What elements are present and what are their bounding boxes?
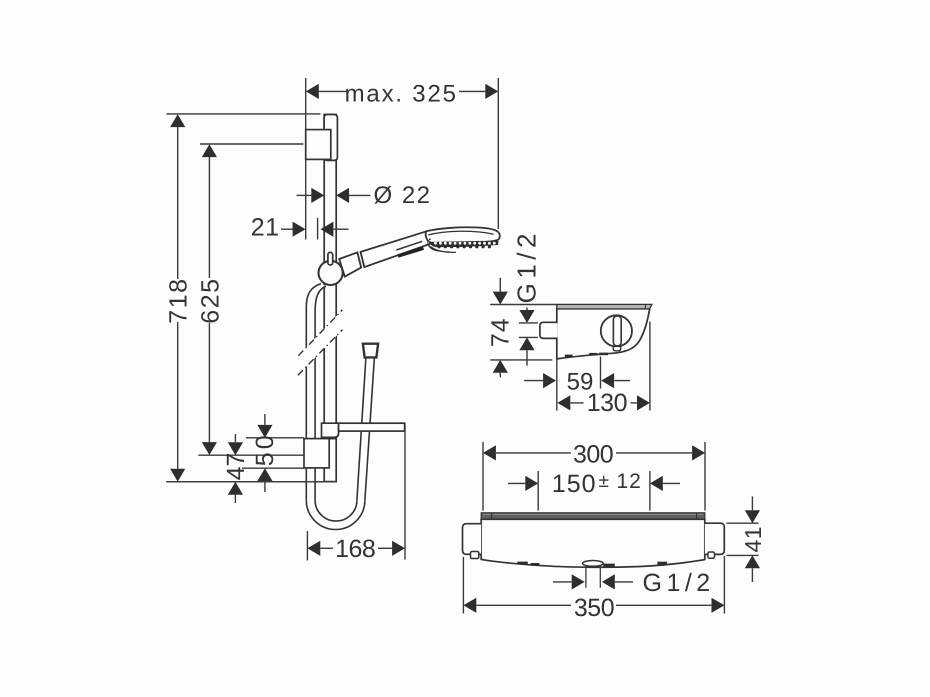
extension lines 300 [482, 442, 484, 511]
shower head face rim [428, 231, 493, 235]
rail top slide clamp [324, 115, 337, 161]
svg-text:41: 41 [740, 526, 766, 553]
extension line right of hand shower (max. 325 right) [497, 78, 499, 229]
side view bottom ticks [565, 355, 573, 358]
wall extension line (max. 325 left / wall plane) [305, 78, 307, 240]
hand shower cone adapter [339, 252, 361, 276]
svg-text:G1/2: G1/2 [643, 569, 715, 597]
lower wall bracket [329, 438, 336, 440]
front view top band [481, 513, 705, 520]
svg-text:G1/2: G1/2 [512, 229, 542, 303]
grip button thin line [396, 241, 422, 250]
grip select button [398, 248, 424, 256]
side view top band [557, 304, 652, 309]
svg-text:50: 50 [251, 432, 279, 466]
svg-text:168: 168 [335, 535, 375, 563]
band ticks [491, 513, 493, 520]
holder knob [328, 252, 333, 265]
side view inlet connector G1/2 [540, 322, 558, 338]
extension line 130 right [649, 322, 651, 411]
spray nozzle outer bumps [437, 245, 440, 248]
knob grip pill [613, 316, 621, 346]
band tick [644, 304, 647, 309]
svg-text:300: 300 [573, 440, 613, 468]
extension line 21 [317, 218, 319, 240]
rail break symbol (white gap) [298, 310, 343, 375]
left inlet connector [463, 524, 482, 555]
extension line 168 left [306, 531, 308, 561]
right connector screw nub [708, 552, 715, 558]
svg-text:Ø 22: Ø 22 [374, 182, 432, 209]
shower head body [426, 227, 500, 244]
hand shower grip [361, 231, 431, 267]
dimension 718 [170, 114, 185, 127]
dimension Ø 22 [297, 194, 312, 196]
extension lines 41 [726, 522, 758, 524]
dark shadow under head left [427, 241, 451, 252]
upper wall bracket [306, 130, 331, 160]
extension lines G1/2 [519, 322, 538, 324]
svg-text:625: 625 [196, 277, 224, 323]
outlet stub extension lines [585, 566, 587, 588]
svg-text:130: 130 [587, 389, 627, 417]
outlet flange ellipse [583, 561, 604, 567]
front view body [481, 519, 705, 567]
belly tick marks [517, 562, 528, 565]
spray disc under-curve [431, 247, 457, 253]
dimension G1/2 (side) [512, 229, 542, 303]
dimension G1/2 (front) [553, 581, 572, 583]
break line lower (dash-dot) [298, 330, 343, 375]
svg-text:718: 718 [165, 277, 193, 323]
extension line rail top (718) [166, 113, 320, 115]
dimension 300 [483, 445, 496, 460]
dimension 625 [202, 144, 217, 157]
extension line 168 right / shelf edge [404, 424, 406, 560]
spray nozzle dots [434, 242, 437, 245]
thermostat side view: body [557, 309, 650, 359]
hose inner-left edge [315, 286, 326, 500]
hose right edge outer [365, 358, 375, 501]
svg-text:150: 150 [552, 470, 597, 498]
hose U-bend inner [315, 500, 357, 521]
shower rail tube [324, 115, 336, 482]
extension line 625 bottom [198, 454, 303, 456]
soap shelf [339, 423, 405, 431]
knob bottom tab [613, 346, 621, 350]
shelf clamp on rail [322, 423, 339, 437]
side view wall extension line [556, 359, 558, 411]
dimension 41 [745, 510, 760, 523]
rail bottom extension line (redrawn over hose) [166, 481, 336, 483]
extension line 59 (outlet axis) [600, 357, 602, 389]
dimension 59 [524, 380, 543, 382]
extension lines 350 [462, 557, 464, 614]
break line upper (dash-dot) [298, 310, 342, 356]
svg-text:21: 21 [251, 214, 280, 242]
svg-text:74: 74 [487, 317, 515, 347]
dimension 47 [228, 442, 243, 455]
svg-text:350: 350 [574, 594, 614, 622]
hose right edge inner [357, 358, 366, 501]
svg-text:12: 12 [617, 470, 642, 493]
extension line bracket top (50) [246, 437, 304, 439]
svg-text:max. 325: max. 325 [345, 80, 458, 107]
svg-text:47: 47 [222, 453, 250, 481]
hose conical fitting [363, 344, 378, 358]
cone ring line [361, 252, 365, 267]
head joint dot [429, 238, 431, 240]
spray face strip [430, 241, 498, 248]
dimension 74 [493, 292, 508, 305]
extension line bracket bottom (50) [242, 467, 304, 469]
extension line rail bottom (718/47) [166, 481, 336, 483]
dimension 350 [463, 598, 476, 613]
hose U-bend outer [306, 500, 365, 529]
hose outer-left edge [306, 284, 321, 501]
extension line bracket top (625) [200, 143, 303, 145]
right inlet connector [705, 523, 725, 554]
extension line 74 top [490, 304, 557, 306]
extension line 74 bottom [490, 359, 552, 361]
extension lines 150 [537, 471, 539, 511]
left connector screw nub [471, 552, 479, 559]
dimension max. 325 [319, 90, 347, 92]
svg-text:±: ± [599, 471, 609, 492]
dimension 130 [557, 395, 570, 410]
dimension 150 ± 12 [508, 482, 525, 484]
thermostat knob circle [601, 315, 632, 346]
shower hose (white band fill) [306, 284, 374, 530]
rail holder circle [319, 261, 343, 285]
dimension 50 [257, 425, 272, 438]
